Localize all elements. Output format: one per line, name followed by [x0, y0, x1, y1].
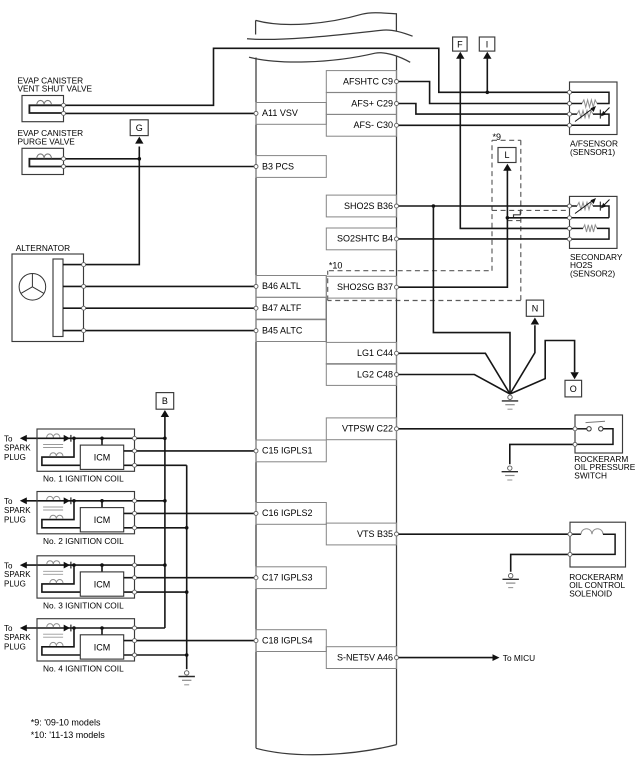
svg-text:To: To	[4, 624, 13, 633]
svg-text:To: To	[4, 435, 13, 444]
svg-text:AFSHTC C9: AFSHTC C9	[343, 76, 393, 86]
svg-text:N: N	[532, 303, 539, 313]
svg-text:F: F	[457, 39, 463, 49]
svg-text:VTPSW C22: VTPSW C22	[342, 424, 393, 434]
svg-text:G: G	[136, 123, 143, 133]
svg-text:SOLENOID: SOLENOID	[569, 588, 612, 598]
svg-text:ICM: ICM	[94, 515, 111, 525]
svg-text:VTS B35: VTS B35	[357, 529, 393, 539]
svg-text:SPARK: SPARK	[4, 633, 31, 642]
svg-text:No. 1 IGNITION COIL: No. 1 IGNITION COIL	[43, 474, 124, 484]
svg-text:SPARK: SPARK	[4, 443, 31, 452]
svg-text:PLUG: PLUG	[4, 515, 26, 524]
svg-text:C16 IGPLS2: C16 IGPLS2	[262, 508, 313, 518]
svg-text:LG1 C44: LG1 C44	[357, 348, 393, 358]
svg-text:To MICU: To MICU	[503, 653, 535, 663]
svg-text:C15 IGPLS1: C15 IGPLS1	[262, 446, 313, 456]
svg-text:ALTERNATOR: ALTERNATOR	[16, 243, 70, 253]
svg-text:LG2 C48: LG2 C48	[357, 369, 393, 379]
svg-text:*9: '09-10 models: *9: '09-10 models	[31, 718, 101, 728]
svg-text:AFS+ C29: AFS+ C29	[351, 98, 393, 108]
svg-text:SPARK: SPARK	[4, 570, 31, 579]
svg-text:*10: '11-13 models: *10: '11-13 models	[31, 730, 106, 740]
svg-text:*9: *9	[493, 132, 502, 142]
svg-text:B3 PCS: B3 PCS	[262, 161, 294, 171]
svg-text:(SENSOR1): (SENSOR1)	[570, 147, 615, 157]
svg-text:ICM: ICM	[94, 642, 111, 652]
svg-text:(SENSOR2): (SENSOR2)	[570, 268, 615, 278]
svg-text:C17 IGPLS3: C17 IGPLS3	[262, 573, 313, 583]
svg-text:SWITCH: SWITCH	[574, 470, 607, 480]
svg-text:PLUG: PLUG	[4, 453, 26, 462]
svg-text:AFS- C30: AFS- C30	[353, 120, 393, 130]
svg-text:O: O	[570, 384, 577, 394]
svg-text:I: I	[486, 39, 489, 49]
svg-text:B45 ALTC: B45 ALTC	[262, 325, 303, 335]
svg-text:No. 3 IGNITION COIL: No. 3 IGNITION COIL	[43, 601, 124, 611]
svg-text:A11 VSV: A11 VSV	[262, 108, 298, 118]
svg-text:ICM: ICM	[94, 579, 111, 589]
svg-text:No. 4 IGNITION COIL: No. 4 IGNITION COIL	[43, 663, 124, 673]
svg-text:C18 IGPLS4: C18 IGPLS4	[262, 635, 313, 645]
svg-text:SHO2S B36: SHO2S B36	[344, 201, 393, 211]
svg-text:B46 ALTL: B46 ALTL	[262, 281, 301, 291]
svg-text:To: To	[4, 561, 13, 570]
svg-text:B: B	[162, 396, 168, 406]
svg-text:*10: *10	[329, 260, 343, 270]
svg-text:S-NET5V A46: S-NET5V A46	[337, 652, 393, 662]
svg-text:SHO2SG B37: SHO2SG B37	[337, 282, 393, 292]
svg-text:ICM: ICM	[94, 453, 111, 463]
svg-text:VENT SHUT VALVE: VENT SHUT VALVE	[18, 84, 93, 94]
svg-text:PURGE VALVE: PURGE VALVE	[18, 137, 76, 147]
svg-text:SO2SHTC B4: SO2SHTC B4	[337, 234, 393, 244]
svg-text:PLUG: PLUG	[4, 580, 26, 589]
svg-text:No. 2 IGNITION COIL: No. 2 IGNITION COIL	[43, 536, 124, 546]
svg-text:B47 ALTF: B47 ALTF	[262, 303, 302, 313]
svg-text:L: L	[504, 150, 509, 160]
svg-text:To: To	[4, 497, 13, 506]
svg-text:PLUG: PLUG	[4, 643, 26, 652]
svg-text:SPARK: SPARK	[4, 506, 31, 515]
